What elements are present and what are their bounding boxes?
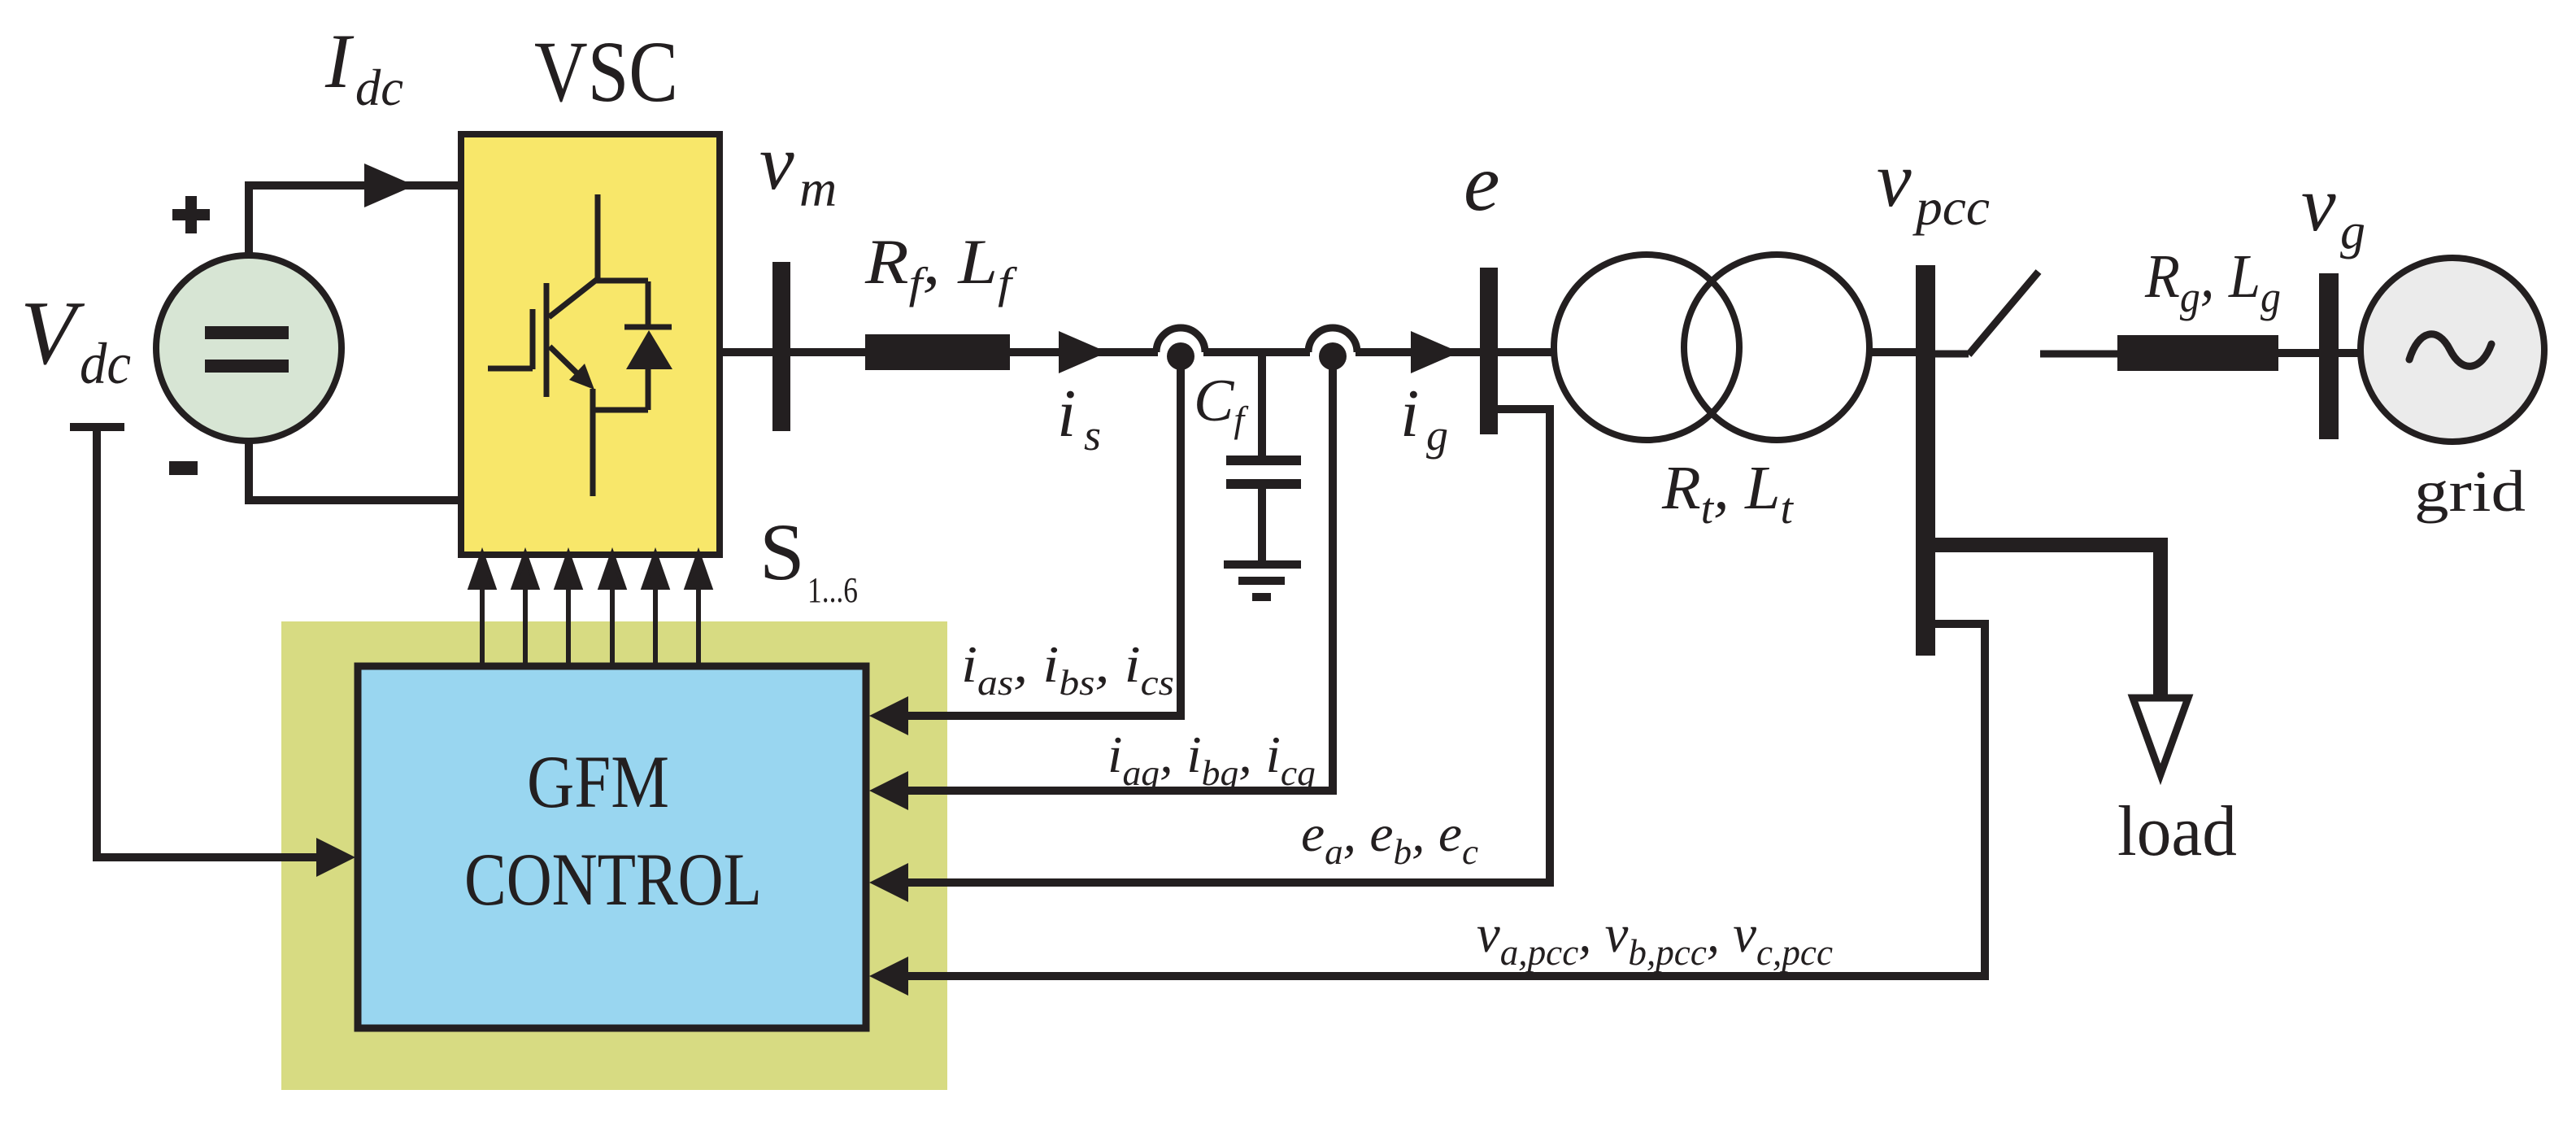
wire bus e to transformer — [1498, 348, 1557, 356]
inductor Rf Lf — [865, 334, 1010, 370]
svg-text:m: m — [799, 159, 837, 217]
switch breaker — [1934, 272, 2117, 355]
label minus — [169, 461, 198, 475]
label V_dc — [20, 283, 131, 396]
wire dc bottom — [249, 441, 461, 500]
transformer Rt Lt — [1554, 255, 1869, 440]
label v_pcc — [1877, 136, 1990, 236]
label i_ag i_bg i_cg — [1107, 726, 1316, 793]
label GFM — [527, 740, 669, 823]
wire transformer to bus pcc — [1869, 348, 1916, 356]
svg-text:CONTROL: CONTROL — [464, 838, 762, 921]
svg-text:load: load — [2117, 792, 2237, 871]
label C_f — [1194, 368, 1249, 440]
wire filter to sensor1 — [1010, 348, 1158, 356]
svg-text:1...6: 1...6 — [807, 570, 858, 610]
bus v_m — [772, 262, 790, 431]
label I_dc — [324, 18, 403, 116]
label CONTROL — [464, 838, 762, 921]
label plus — [172, 196, 210, 233]
arrow i_ag into control — [869, 771, 908, 810]
arrow i_as into control — [869, 696, 908, 735]
wire VSC output — [720, 348, 772, 356]
svg-text:dc: dc — [355, 59, 403, 116]
ground — [1224, 564, 1301, 597]
label Rf Lf — [864, 226, 1018, 307]
label Rt Lt — [1661, 454, 1795, 533]
svg-text:grid: grid — [2414, 459, 2526, 524]
svg-text:VSC: VSC — [534, 24, 678, 120]
label v_apcc v_bpcc v_cpcc — [1477, 905, 1833, 973]
svg-text:GFM: GFM — [527, 740, 669, 823]
svg-text:Rf, Lf: Rf, Lf — [864, 226, 1018, 307]
dc source V_dc — [156, 255, 342, 441]
wire sensor1 to sensor2 — [1203, 348, 1310, 356]
control box GFM — [358, 666, 866, 1028]
sensor current i_g — [1308, 328, 1357, 370]
svg-text:g: g — [1426, 411, 1448, 460]
svg-text:g: g — [2340, 204, 2365, 259]
label e — [1464, 137, 1499, 228]
label i_g — [1400, 376, 1448, 460]
gate signal arrows S1..6 — [471, 555, 710, 666]
wire signal i_as — [878, 364, 1181, 716]
wire bus vg to grid — [2339, 349, 2362, 357]
wire dc top — [249, 185, 461, 255]
label i_as i_bs i_cs — [961, 635, 1174, 703]
label v_m — [759, 119, 837, 217]
arrow e_abc into control — [869, 863, 908, 902]
svg-text:dc: dc — [80, 331, 131, 396]
converter VSC — [461, 134, 720, 555]
arrow i_g — [1411, 331, 1460, 373]
label v_g — [2301, 160, 2365, 259]
svg-text:Rt, Lt: Rt, Lt — [1661, 454, 1795, 533]
arrow I_dc — [364, 163, 415, 207]
diode D1 — [626, 330, 672, 369]
source grid — [2361, 258, 2544, 442]
wire Rg to bus vg — [2278, 349, 2319, 357]
arrow load — [2133, 698, 2188, 774]
svg-text:i: i — [1057, 376, 1076, 451]
svg-text:I: I — [324, 18, 355, 104]
arrow v_pcc into control — [869, 957, 908, 996]
capacitor Cf — [1226, 352, 1301, 561]
wire signal e_abc — [878, 409, 1550, 883]
svg-text:e: e — [1464, 137, 1499, 228]
inductor Rg Lg — [2117, 335, 2278, 371]
wire signal i_ag — [878, 364, 1333, 791]
label load — [2117, 792, 2237, 871]
bus e — [1480, 268, 1498, 434]
arrow Vdc into control — [316, 838, 355, 877]
svg-text:s: s — [1084, 411, 1101, 460]
label grid — [2414, 459, 2526, 524]
arrow i_s — [1059, 331, 1107, 373]
wire signal v_pcc measurement — [878, 624, 1985, 976]
wire bus to filter — [790, 348, 865, 356]
svg-text:v: v — [759, 119, 794, 206]
svg-text:V: V — [20, 283, 85, 384]
wire Vdc measurement — [70, 427, 319, 857]
wire sensor2 to bus e — [1355, 348, 1480, 356]
label S_1..6 — [759, 507, 858, 610]
wire load branch — [1934, 545, 2160, 695]
svg-text:v: v — [2301, 160, 2336, 247]
sensor current i_s — [1156, 328, 1205, 370]
bus v_pcc — [1916, 265, 1935, 656]
label VSC — [534, 24, 678, 120]
transistor IGBT with diode — [488, 194, 672, 496]
label Rg Lg — [2144, 242, 2281, 321]
svg-text:S: S — [759, 507, 805, 597]
svg-text:Rg, Lg: Rg, Lg — [2144, 242, 2281, 321]
bus v_g — [2319, 273, 2339, 439]
label i_s — [1057, 376, 1101, 460]
control region background (olive box) — [281, 621, 947, 1090]
label e_a e_b e_c — [1301, 804, 1478, 872]
transistor emitter arrowhead — [569, 364, 594, 390]
svg-text:pcc: pcc — [1912, 178, 1990, 236]
svg-text:v: v — [1877, 136, 1912, 223]
svg-text:i: i — [1400, 376, 1419, 451]
